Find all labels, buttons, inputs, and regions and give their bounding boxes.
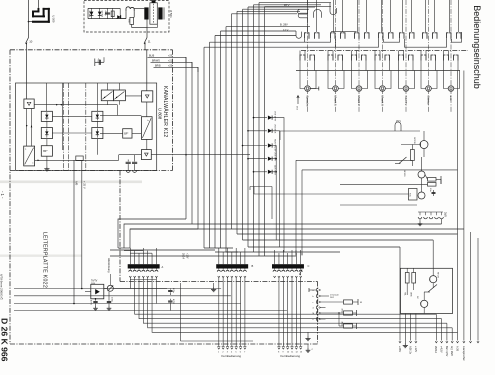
diode box tuner V851 bbox=[91, 284, 104, 299]
lamp H1 bbox=[305, 86, 311, 92]
X1 pin 1 stub bbox=[129, 256, 131, 265]
wire ratio out to buffer A2 bbox=[125, 95, 141, 97]
resistor R922 bbox=[344, 311, 353, 315]
resistor R921 bbox=[344, 300, 353, 304]
X3 pin 4 stub bbox=[287, 256, 289, 265]
wire S1b to lamp bbox=[300, 61, 305, 89]
wire X1 pin2 run bbox=[139, 278, 442, 319]
wire y205 bbox=[340, 204, 417, 206]
diode gate V806 bbox=[92, 128, 103, 139]
power unit box U501 (dashed) bbox=[84, 1, 169, 32]
wire into channel module bbox=[26, 50, 28, 99]
hook terminal 12V bbox=[296, 31, 302, 38]
X2 pin 5 stub bbox=[235, 256, 237, 265]
X2 pin 6 stub bbox=[240, 256, 242, 265]
resistor R932 bbox=[412, 273, 416, 284]
svg-text:A(-) 26/2: A(-) 26/2 bbox=[450, 346, 453, 356]
wire lamp H3 to common rail bbox=[365, 61, 367, 71]
transistor V903 bbox=[418, 192, 425, 199]
X3 pin 7 socket bbox=[299, 270, 302, 272]
wire y170 feed bbox=[302, 169, 458, 171]
svg-text:+25: +25 bbox=[168, 64, 173, 67]
pushbutton S2b contacts bbox=[327, 51, 329, 56]
wire trimmer east bbox=[113, 288, 167, 290]
lamp H2 bbox=[333, 86, 339, 92]
bus wire 15 bbox=[264, 7, 266, 256]
stub links above X2 bbox=[218, 248, 220, 256]
transistor V804 box bbox=[41, 146, 52, 157]
X1 pin 3 stub bbox=[138, 256, 140, 265]
bus link east 11 bbox=[259, 2, 331, 4]
bus link east 3 bbox=[215, 35, 296, 37]
pushbutton S4b contacts bbox=[374, 51, 376, 56]
connector bar X1 bbox=[128, 264, 160, 268]
transistor V902 bbox=[418, 171, 425, 178]
bus wire 8 bbox=[225, 27, 227, 252]
X3 pin 6 stub bbox=[295, 256, 297, 265]
svg-text:26/3 MUS: 26/3 MUS bbox=[274, 124, 276, 134]
lamp H6 bbox=[426, 86, 432, 92]
wire staircase drops to right pins bbox=[435, 314, 437, 340]
wire X1 pin4 run bbox=[148, 278, 453, 328]
capacitor C903 bbox=[433, 190, 435, 196]
transformer right terminal bbox=[163, 7, 165, 19]
svg-text:26/5 SPR: 26/5 SPR bbox=[274, 152, 276, 161]
wire far right vertical 478 bbox=[477, 238, 479, 341]
wire transformer secondary down bbox=[146, 20, 148, 38]
wire V808 to V807 bbox=[132, 132, 141, 134]
X3 pin 5 stub bbox=[291, 256, 293, 265]
X2 pin 6 socket bbox=[239, 270, 242, 272]
transistor V901 bbox=[420, 141, 428, 149]
svg-text:26/14: 26/14 bbox=[181, 253, 183, 259]
X2 pin 2 stub bbox=[222, 256, 224, 265]
resistor R931 bbox=[405, 273, 409, 284]
wire y184 bbox=[340, 183, 428, 185]
X1 remaining drops bbox=[155, 278, 157, 304]
wire V804 to ground bbox=[46, 156, 48, 166]
lamp H7 bbox=[448, 86, 454, 92]
X2 pin 7 stub bbox=[244, 256, 246, 265]
wire V805/V806 column bbox=[96, 83, 98, 111]
X2 pin 3 stub bbox=[227, 256, 229, 265]
connector strip 26/8 (arc row) bbox=[418, 211, 443, 213]
bus link east 7 bbox=[237, 10, 300, 12]
channel selector module inner frame bbox=[16, 83, 157, 171]
pushbutton S6b contacts bbox=[420, 51, 422, 56]
stub links above X1 bbox=[129, 248, 131, 256]
svg-text:M: M bbox=[360, 302, 362, 304]
svg-text:+26V: +26V bbox=[398, 346, 402, 352]
wire strip down bbox=[441, 219, 443, 224]
transistor V807 (slash box) bbox=[141, 117, 152, 140]
svg-text:6/79 9mm 20693 Ǧ: 6/79 9mm 20693 Ǧ bbox=[0, 274, 5, 300]
svg-text:Bedienungseinschub: Bedienungseinschub bbox=[472, 5, 482, 89]
svg-text:Lautsprecher: Lautsprecher bbox=[462, 346, 465, 361]
wire BR/B +25 bbox=[154, 67, 199, 72]
capacitor C512 on +25 rail bbox=[96, 61, 104, 63]
wire BL/B +25 bbox=[148, 57, 187, 62]
output box bottom pins bbox=[399, 314, 401, 341]
pushbutton S7b contacts bbox=[443, 51, 445, 56]
wire right rail 3 bbox=[243, 239, 434, 241]
capacitor C852 bbox=[108, 291, 110, 300]
operator panel boundary (dash-dot) bbox=[301, 50, 468, 52]
wire socket3 east to resistor bbox=[321, 301, 344, 303]
wire S2b to lamp bbox=[328, 61, 333, 89]
svg-text:470µ: 470µ bbox=[104, 11, 106, 17]
diode V505 bbox=[91, 8, 93, 18]
X1 pin 7 socket bbox=[155, 270, 158, 272]
capacitor C853 pair mid bbox=[169, 289, 171, 290]
diode V825 branch bbox=[254, 171, 268, 173]
svg-text:B. 28V: B. 28V bbox=[280, 22, 288, 26]
svg-text:B: B bbox=[252, 264, 254, 268]
wire socket6 east stub bbox=[321, 318, 326, 320]
resistor R506 bbox=[130, 17, 134, 24]
pushbutton S6a contacts bbox=[425, 0, 427, 32]
wire left rail x28 bbox=[28, 0, 30, 38]
transistor V932 bbox=[421, 300, 428, 307]
right plug pins bbox=[435, 341, 437, 343]
wire far right vertical 470 bbox=[470, 232, 472, 341]
X1 link wire under sockets bbox=[130, 278, 156, 280]
svg-text:A: A bbox=[162, 265, 164, 269]
wire logo to left rail bbox=[29, 21, 33, 23]
svg-text:26/5 TA/TV: 26/5 TA/TV bbox=[274, 111, 277, 122]
svg-text:A26 2x: A26 2x bbox=[409, 346, 413, 355]
stage box V903 bbox=[409, 189, 418, 201]
X3 pin 7 stub bbox=[300, 256, 302, 265]
X2 pin 4 stub bbox=[231, 256, 233, 265]
transistor V808 box BF bbox=[123, 129, 132, 138]
bus link east 5 bbox=[226, 26, 310, 28]
ground output bbox=[404, 341, 406, 344]
wire lower link to x272 bbox=[250, 186, 272, 188]
bus wire 2 bbox=[191, 62, 193, 224]
bus wire 11 bbox=[242, 9, 244, 240]
svg-text:c: c bbox=[313, 302, 314, 304]
hook terminal 28V bbox=[330, 3, 337, 15]
svg-text:Fernbedienung: Fernbedienung bbox=[222, 354, 242, 358]
capacitor C854 bbox=[169, 299, 171, 301]
terminal bar bbox=[440, 176, 442, 184]
wire rail y194 to TGL box bbox=[254, 193, 409, 195]
ground pin right of group 2 bbox=[307, 344, 309, 348]
wire X1 pin3 run bbox=[143, 278, 447, 324]
svg-text:10: 10 bbox=[29, 40, 33, 44]
svg-text:SY360: SY360 bbox=[88, 11, 90, 18]
horizontal feeds in remote box bbox=[14, 288, 221, 290]
bus wire 6 bbox=[214, 36, 216, 249]
svg-text:100n: 100n bbox=[111, 297, 113, 303]
resistor R901 bbox=[411, 150, 415, 161]
wire drops X2 to remote plug bbox=[218, 278, 220, 347]
wire S7b to lamp bbox=[444, 61, 449, 89]
X3 pin 1 socket bbox=[273, 270, 276, 272]
svg-text:A 26: A 26 bbox=[455, 346, 458, 352]
scan streak 1 bbox=[0, 181, 142, 184]
module separator dash-dot lines bbox=[63, 83, 65, 171]
diode V823-V825 common output bbox=[273, 146, 277, 241]
wire lamp H2 to common rail bbox=[342, 61, 344, 71]
svg-text:SC236: SC236 bbox=[413, 137, 415, 144]
capacitor pair C815 C816 bbox=[127, 160, 129, 162]
svg-text:GRN: GRN bbox=[410, 292, 412, 297]
wire BR/WS +25 bbox=[151, 62, 193, 67]
X1 pin 1 socket bbox=[129, 270, 132, 272]
wire S6b to lamp bbox=[421, 61, 426, 89]
wire into module to buffer bbox=[146, 50, 148, 91]
svg-text:4700: 4700 bbox=[89, 300, 91, 306]
wire U501 bottom bus bbox=[88, 18, 126, 20]
ground (module) bbox=[46, 166, 48, 169]
bus link east 9 bbox=[248, 6, 315, 8]
svg-text:d: d bbox=[313, 308, 314, 310]
svg-text:SF126: SF126 bbox=[437, 272, 439, 279]
wire A1 down bbox=[26, 109, 28, 147]
wire y160 feed bbox=[296, 159, 412, 161]
diode V822 branch bbox=[248, 130, 267, 132]
bus link east 8 bbox=[243, 8, 310, 10]
transistor V931 bbox=[430, 276, 437, 283]
X3 pin 3 stub bbox=[282, 256, 284, 265]
wire X1 pin1 run bbox=[135, 278, 437, 315]
wire diode box to trimmer bbox=[104, 288, 108, 290]
capacitor C505 bbox=[107, 8, 109, 18]
diode V821 branch bbox=[254, 117, 268, 119]
panel arrow mark bbox=[297, 96, 299, 105]
switch contact S9 bbox=[399, 157, 407, 164]
long rail y247 bbox=[248, 246, 400, 248]
wire U501 top bus bbox=[88, 7, 120, 9]
diode V507 bbox=[119, 8, 121, 18]
panel common wire bbox=[296, 70, 460, 72]
bus wire 7 bbox=[220, 31, 222, 248]
pushbutton S1b contacts bbox=[299, 51, 301, 56]
diode V824 branch bbox=[248, 158, 267, 160]
svg-text:LEITERPLATTE K022: LEITERPLATTE K022 bbox=[42, 232, 48, 288]
loudspeaker logo bbox=[32, 11, 34, 18]
svg-text:D 26 K 966: D 26 K 966 bbox=[0, 318, 9, 362]
long rail y252 bbox=[226, 251, 340, 253]
wire drops X3 to remote plug bbox=[278, 278, 280, 347]
wire diode column feeds bbox=[45, 83, 47, 111]
X2 pin 3 socket bbox=[226, 270, 229, 272]
far right pin marks bbox=[469, 341, 471, 343]
wire socket5 east to resistor pair bbox=[321, 312, 344, 314]
svg-text:SF126: SF126 bbox=[403, 170, 405, 177]
svg-text:- 1 -: - 1 - bbox=[0, 191, 5, 199]
panel section dash-dot dividers bbox=[307, 0, 309, 113]
svg-text:+12V: +12V bbox=[186, 253, 188, 259]
svg-text:26/4 A: 26/4 A bbox=[434, 346, 437, 353]
diode V506 bbox=[99, 8, 101, 18]
X2 pin 1 stub bbox=[218, 256, 220, 265]
lamp H4 bbox=[380, 86, 386, 92]
bus wire 12 bbox=[247, 7, 249, 247]
wire A1 out east bbox=[34, 104, 117, 106]
wire lamp H1 to common rail bbox=[314, 61, 316, 71]
transformer U501 winding bars bbox=[144, 7, 148, 19]
scan streak 2 bbox=[0, 255, 82, 257]
X2 pin 5 socket bbox=[235, 270, 238, 272]
diode gate V803 bbox=[41, 128, 52, 139]
diode V823 branch bbox=[243, 145, 268, 147]
ground at strip bbox=[419, 219, 421, 222]
svg-text:12 V: 12 V bbox=[283, 28, 289, 32]
X3 pin 6 socket bbox=[295, 270, 298, 272]
ground symbols under caps bbox=[126, 170, 130, 172]
long rail y256 bbox=[110, 255, 296, 257]
wire right vertical 464 bbox=[463, 71, 465, 341]
X1 pin 3 socket bbox=[137, 270, 140, 272]
wire C853 group down bbox=[169, 305, 171, 311]
diode gate V805 bbox=[92, 111, 103, 121]
X3 pin 4 socket bbox=[286, 270, 289, 272]
X3 pin 2 stub bbox=[278, 256, 280, 265]
wire socket4 east stub bbox=[321, 307, 326, 309]
relay K501 coil bbox=[126, 7, 134, 11]
X3 pin 1 stub bbox=[274, 256, 276, 265]
bus wire 9 bbox=[231, 14, 233, 229]
buffer amp A3 bbox=[141, 150, 151, 160]
svg-text:470: 470 bbox=[97, 59, 100, 64]
diode V822 output bbox=[273, 131, 280, 247]
svg-text:Fernbedienung: Fernbedienung bbox=[281, 354, 301, 358]
wire x180 drop bbox=[180, 283, 182, 341]
switch row1 interconnect links bbox=[305, 39, 331, 42]
switch contact in box bbox=[428, 285, 437, 293]
svg-text:11: 11 bbox=[148, 40, 151, 44]
remote plug pins group 1 bbox=[218, 348, 220, 350]
wire logo top feed bbox=[38, 0, 40, 8]
X2 pin 2 socket bbox=[222, 270, 225, 272]
pushbutton S7a contacts bbox=[449, 0, 451, 32]
X3 pin 2 socket bbox=[277, 270, 280, 272]
pushbutton S3b contacts bbox=[351, 51, 353, 56]
wire right rail 2 bbox=[237, 233, 458, 235]
svg-text:BR/B: BR/B bbox=[155, 64, 161, 67]
svg-text:BF*: BF* bbox=[124, 133, 128, 136]
wire lamp H4 to common rail bbox=[389, 61, 391, 71]
svg-text:+ 25 V: + 25 V bbox=[82, 181, 86, 189]
connector break 11 (right) bbox=[144, 38, 147, 44]
junction dots tuner bbox=[95, 298, 97, 300]
connector break at x302 bbox=[300, 270, 303, 275]
ground right inside remote box bbox=[350, 283, 352, 287]
diode V821 output bbox=[273, 118, 285, 252]
board boundary Leiterplatte K022 (dash-dot) bbox=[10, 49, 173, 51]
wire into diode box bbox=[85, 291, 91, 293]
pushbutton S5b contacts bbox=[398, 51, 400, 56]
bus fanout west to tuner block bbox=[118, 219, 186, 248]
wire A3 output east (exits module) bbox=[151, 154, 250, 156]
bus wire 10 bbox=[236, 11, 238, 234]
terminal bar right of lamp1 bbox=[318, 87, 320, 91]
X1 pin 7 stub bbox=[155, 256, 157, 265]
row1 top link wire bbox=[331, 30, 357, 32]
wire socket2 east bbox=[321, 295, 330, 297]
svg-text:BR/WS: BR/WS bbox=[152, 59, 160, 62]
svg-text:26/8: 26/8 bbox=[444, 212, 447, 217]
wire mid column bbox=[62, 83, 64, 150]
pushbutton S2a contacts bbox=[333, 0, 335, 32]
svg-text:4600: 4600 bbox=[341, 322, 343, 326]
capacitor C851 bbox=[95, 299, 97, 301]
svg-text:470p: 470p bbox=[172, 288, 174, 294]
ratio detector stage boxes bbox=[101, 90, 113, 101]
hook terminal bridge bbox=[314, 9, 322, 17]
connector bar X2 bbox=[216, 264, 248, 268]
X1 pin 6 socket bbox=[151, 270, 154, 272]
wire V801 out east bbox=[35, 159, 119, 161]
remote plug pins group 2 bbox=[278, 348, 280, 350]
svg-text:U 808: U 808 bbox=[158, 108, 163, 120]
svg-text:C: C bbox=[308, 264, 310, 268]
resistor R923 branch bbox=[338, 313, 340, 326]
svg-text:+25: +25 bbox=[168, 54, 173, 57]
wire y131 feed bbox=[280, 130, 420, 132]
wire X1 pin5 run bbox=[152, 278, 457, 333]
X3 pin 3 socket bbox=[282, 270, 285, 272]
svg-text:+21: +21 bbox=[168, 59, 173, 62]
svg-text:4700: 4700 bbox=[172, 299, 174, 305]
bus link east 1 bbox=[204, 46, 336, 48]
resistor R505 bbox=[112, 8, 114, 18]
wire down pair to tuner block bbox=[73, 160, 75, 303]
wire lamp H6 to common rail bbox=[435, 61, 437, 71]
wire right rail 1 bbox=[130, 228, 464, 230]
connector bar X3 bbox=[272, 264, 304, 268]
wire box feeds from top rails bbox=[406, 247, 408, 268]
X2 pin 4 socket bbox=[230, 270, 233, 272]
transformer core frame bbox=[150, 3, 157, 24]
transistor stage V801 (slash box) bbox=[24, 146, 35, 166]
bus wire 5 bbox=[209, 42, 211, 248]
X1 pin 5 stub bbox=[147, 256, 149, 265]
X1 pin 2 socket bbox=[133, 270, 136, 272]
X2 pin 1 socket bbox=[217, 270, 220, 272]
resistor R810 on line bbox=[76, 156, 83, 161]
X1 pin 4 stub bbox=[142, 256, 144, 265]
svg-text:U 509: U 509 bbox=[51, 16, 55, 23]
svg-text:Abstimmung: Abstimmung bbox=[107, 258, 111, 273]
wire V807 down to A3 bbox=[146, 139, 148, 149]
transformer top terminal bbox=[152, 0, 156, 3]
bus wire 4 bbox=[203, 47, 205, 248]
X3 pin 5 socket bbox=[290, 270, 293, 272]
lamp H3 bbox=[356, 86, 362, 92]
bus wire 13 bbox=[253, 5, 255, 252]
hook terminal pair C-shapes bbox=[298, 9, 308, 14]
wire relay to transformer bbox=[134, 7, 144, 9]
wire S5b to lamp bbox=[399, 61, 404, 89]
diode gate V802 bbox=[41, 111, 52, 121]
X1 pin 6 stub bbox=[151, 256, 153, 265]
pushbutton S3a contacts bbox=[357, 0, 359, 32]
pushbutton S5a contacts bbox=[402, 0, 404, 32]
svg-text:U 501: U 501 bbox=[169, 10, 173, 18]
connector break 10 (left) bbox=[26, 38, 29, 44]
wire right vertical 457 bbox=[457, 71, 459, 341]
buffer amp A2 bbox=[142, 91, 153, 102]
wire path y115 bbox=[100, 114, 141, 116]
pushbutton S4a contacts bbox=[381, 0, 383, 32]
X1 pin 4 socket bbox=[142, 270, 145, 272]
svg-text:SY360: SY360 bbox=[101, 11, 103, 18]
hook terminal y131 bbox=[395, 122, 401, 131]
